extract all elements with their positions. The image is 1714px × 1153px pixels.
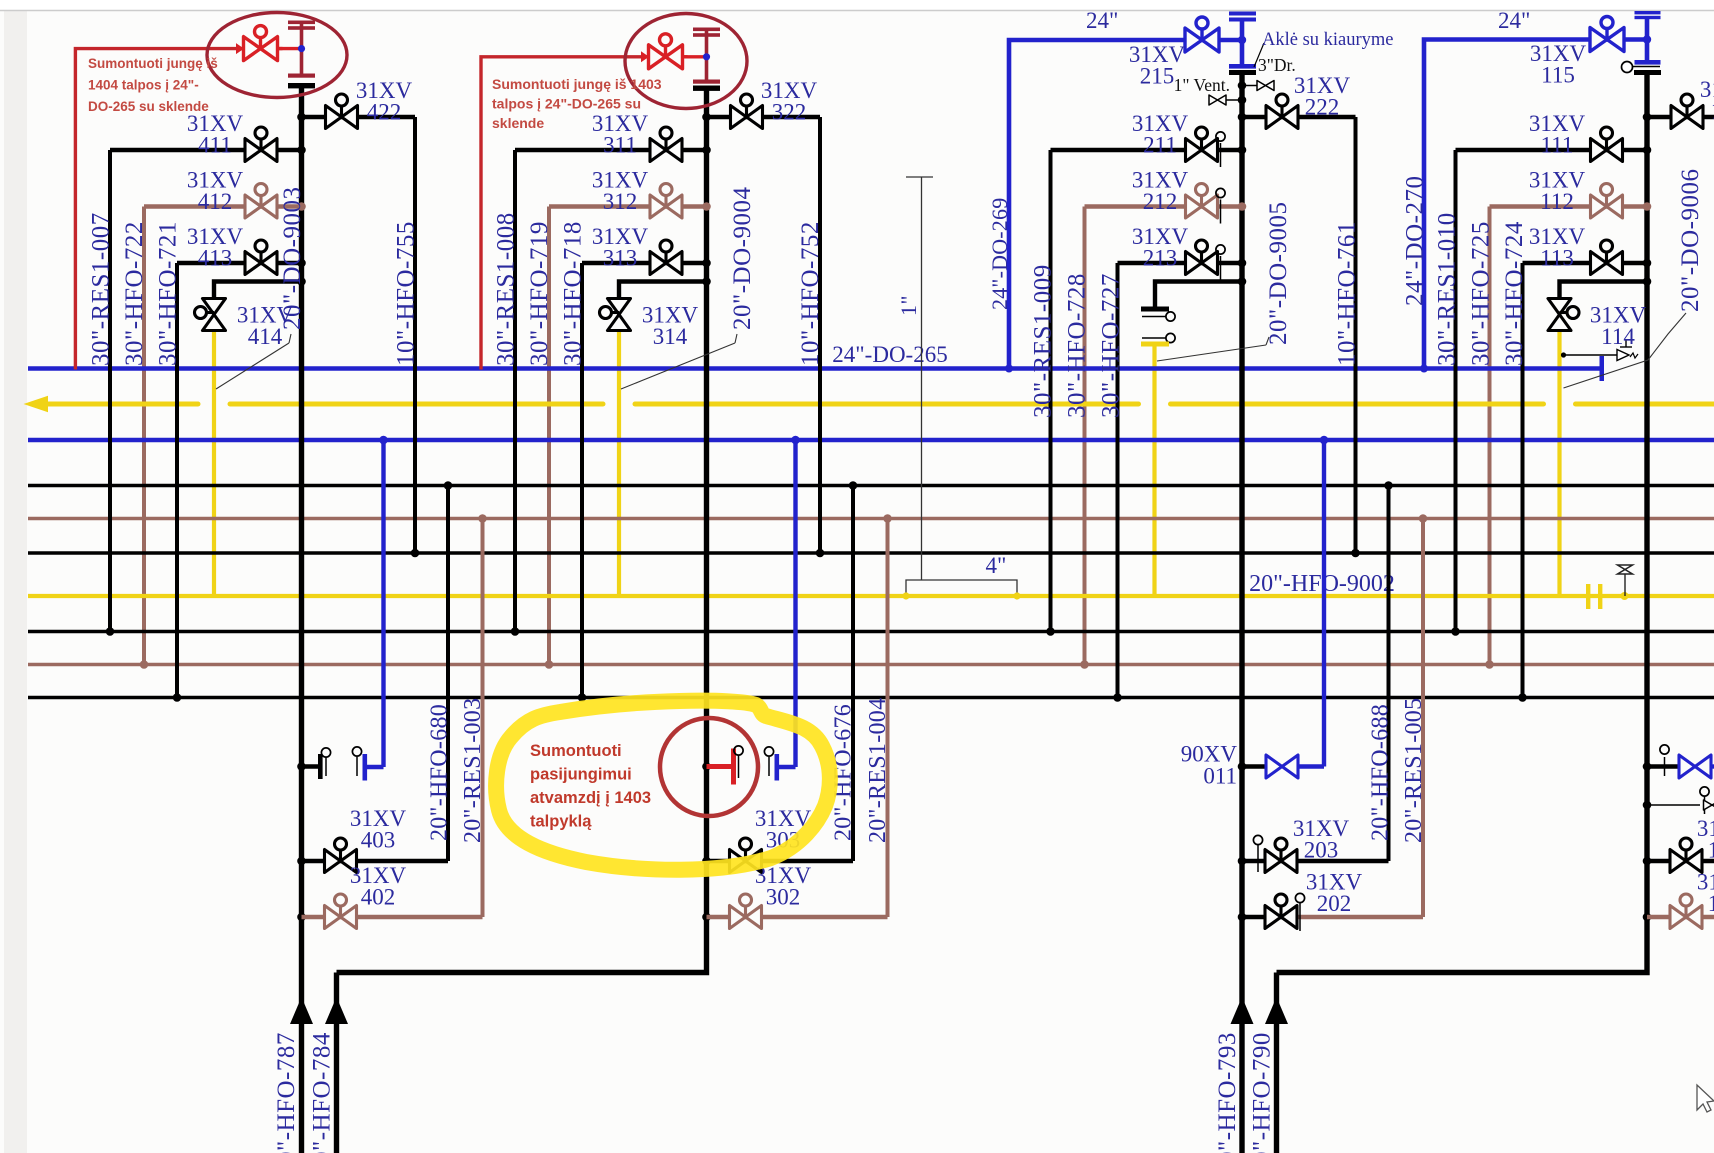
svg-text:411: 411: [198, 133, 232, 158]
svg-text:10"-HFO-752: 10"-HFO-752: [797, 221, 824, 366]
svg-text:215: 215: [1140, 64, 1175, 89]
svg-text:talpyklą: talpyklą: [530, 813, 592, 831]
svg-text:113: 113: [1540, 246, 1574, 271]
svg-text:30"-RES1-008: 30"-RES1-008: [493, 212, 520, 366]
svg-text:Sumontuoti: Sumontuoti: [530, 742, 622, 760]
svg-text:sklende: sklende: [492, 115, 544, 131]
svg-text:30"-HFO-724: 30"-HFO-724: [1501, 221, 1528, 366]
svg-text:222: 222: [1305, 95, 1340, 120]
svg-text:20"-HFO-680: 20"-HFO-680: [427, 704, 453, 841]
svg-text:30"-HFO-728: 30"-HFO-728: [1064, 273, 1091, 418]
svg-text:20"-HFO-784: 20"-HFO-784: [309, 1032, 336, 1153]
svg-text:203: 203: [1304, 838, 1339, 863]
svg-text:20"-DO-9006: 20"-DO-9006: [1677, 169, 1704, 312]
svg-text:30"-RES1-007: 30"-RES1-007: [88, 212, 115, 366]
svg-text:20"-HFO-790: 20"-HFO-790: [1249, 1032, 1276, 1153]
svg-text:213: 213: [1143, 246, 1178, 271]
svg-text:30"-HFO-721: 30"-HFO-721: [155, 221, 182, 366]
svg-text:302: 302: [766, 885, 801, 910]
svg-text:1404 talpos į 24"-: 1404 talpos į 24"-: [88, 78, 199, 93]
svg-text:202: 202: [1317, 891, 1352, 916]
svg-text:30"-RES1-009: 30"-RES1-009: [1030, 264, 1057, 418]
svg-text:10"-HFO-761: 10"-HFO-761: [1334, 221, 1361, 366]
svg-text:20"-HFO-793: 20"-HFO-793: [1214, 1032, 1241, 1153]
svg-text:30"-HFO-719: 30"-HFO-719: [526, 221, 553, 366]
svg-text:322: 322: [772, 100, 807, 125]
svg-text:313: 313: [603, 246, 638, 271]
svg-text:30"-HFO-722: 30"-HFO-722: [121, 221, 148, 366]
svg-text:Sumontuoti jungę iš 1403: Sumontuoti jungę iš 1403: [492, 76, 662, 92]
svg-text:24"-DO-269: 24"-DO-269: [987, 198, 1012, 310]
svg-text:Sumontuoti jungę iš: Sumontuoti jungę iš: [88, 56, 218, 71]
svg-text:30"-HFO-718: 30"-HFO-718: [560, 221, 587, 366]
svg-text:Aklė su kiauryme: Aklė su kiauryme: [1262, 30, 1394, 50]
svg-text:24": 24": [1086, 8, 1118, 33]
svg-text:DO-265 su sklende: DO-265 su sklende: [88, 99, 209, 114]
svg-text:24": 24": [1498, 8, 1530, 33]
svg-text:1" Vent.: 1" Vent.: [1174, 75, 1230, 95]
svg-text:412: 412: [198, 189, 233, 214]
svg-text:114: 114: [1601, 324, 1635, 349]
svg-text:20"-DO-9004: 20"-DO-9004: [729, 187, 756, 330]
svg-text:312: 312: [603, 189, 638, 214]
svg-text:20"-RES1-003: 20"-RES1-003: [460, 698, 486, 843]
svg-text:20"-DO-9005: 20"-DO-9005: [1265, 202, 1292, 345]
svg-text:20"-HFO-787: 20"-HFO-787: [273, 1032, 300, 1153]
svg-text:30"-HFO-725: 30"-HFO-725: [1468, 221, 1495, 366]
svg-text:pasijungimui: pasijungimui: [530, 766, 632, 784]
svg-text:atvamzdį į 1403: atvamzdį į 1403: [530, 789, 651, 807]
svg-text:10"-HFO-755: 10"-HFO-755: [393, 221, 420, 366]
svg-text:4": 4": [986, 553, 1007, 578]
svg-text:403: 403: [361, 828, 396, 853]
svg-text:20"-RES1-004: 20"-RES1-004: [865, 698, 891, 843]
svg-text:30"-HFO-727: 30"-HFO-727: [1098, 273, 1125, 418]
svg-text:115: 115: [1541, 63, 1575, 88]
svg-text:311: 311: [603, 133, 637, 158]
svg-text:402: 402: [361, 885, 396, 910]
svg-text:3"Dr.: 3"Dr.: [1258, 55, 1296, 75]
svg-text:20"-HFO-688: 20"-HFO-688: [1368, 704, 1394, 841]
svg-text:1": 1": [896, 295, 921, 316]
svg-text:103: 103: [1708, 838, 1714, 863]
svg-text:314: 314: [653, 324, 688, 349]
svg-text:011: 011: [1203, 764, 1237, 789]
svg-text:102: 102: [1708, 891, 1714, 916]
svg-text:413: 413: [198, 246, 233, 271]
svg-text:422: 422: [367, 100, 402, 125]
svg-text:111: 111: [1541, 133, 1574, 158]
svg-text:talpos į 24"-DO-265 su: talpos į 24"-DO-265 su: [492, 96, 641, 112]
svg-text:30"-RES1-010: 30"-RES1-010: [1434, 212, 1461, 366]
svg-text:212: 212: [1143, 189, 1178, 214]
svg-text:24"-DO-265: 24"-DO-265: [832, 342, 947, 367]
svg-text:414: 414: [248, 324, 283, 349]
svg-text:20"-DO-9003: 20"-DO-9003: [279, 187, 306, 330]
svg-text:211: 211: [1143, 133, 1177, 158]
svg-text:20"-RES1-005: 20"-RES1-005: [1401, 698, 1427, 843]
svg-text:112: 112: [1540, 189, 1574, 214]
svg-text:24"-DO-270: 24"-DO-270: [1402, 176, 1429, 306]
